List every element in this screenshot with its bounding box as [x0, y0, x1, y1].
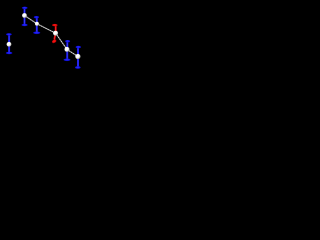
node N ellipsoid bottom of E: [75, 66, 81, 69]
wire bond A up (blue N stick): [24, 8, 26, 16]
node N ellipsoid top of E: [76, 46, 81, 49]
node N ellipsoid top of B: [34, 16, 39, 18]
node O ellipsoid top of C: [52, 24, 58, 27]
node atom ball F: [7, 42, 12, 47]
node atom ball B: [35, 22, 39, 26]
wire bond E down (blue N stick): [77, 57, 79, 68]
wire bond C-D (gray C-C bond): [56, 33, 67, 49]
wire bond C down (red O stick): [54, 33, 55, 39]
wire bond E up (blue N stick): [77, 47, 79, 56]
node atom ball C: [53, 31, 58, 36]
wire bond A down (blue N stick): [24, 16, 26, 26]
wire bond D down (blue N stick): [66, 49, 68, 59]
wire bond F up (blue N stick, isolated group): [8, 34, 10, 44]
node N ellipsoid bottom of D: [64, 59, 71, 62]
wire bond B up (blue N stick): [36, 17, 38, 24]
wire bond F down (blue N stick): [8, 44, 10, 53]
node N ellipsoid bottom of B: [33, 32, 40, 35]
wire bond B down (blue N stick): [36, 24, 38, 33]
node N ellipsoid top of F: [6, 33, 12, 36]
wire bond B-C (gray C-C bond): [37, 24, 56, 33]
node atom ball A: [22, 13, 27, 18]
background: [0, 0, 90, 85]
node N ellipsoid top of A: [22, 7, 28, 9]
wire bond D-E (gray C-C bond): [67, 49, 78, 56]
node atom ball D: [65, 47, 70, 52]
node O ellipsoid bottom of C: [51, 39, 57, 44]
wire bond C up (red O stick): [55, 25, 57, 33]
node N ellipsoid bottom of F: [6, 52, 13, 55]
node N ellipsoid bottom of A: [22, 24, 28, 27]
wire bond A-B (gray C-C bond): [25, 16, 38, 24]
wire bond D up (blue N stick): [66, 41, 68, 49]
node atom ball E: [75, 54, 80, 59]
node N ellipsoid top of D: [65, 40, 70, 43]
